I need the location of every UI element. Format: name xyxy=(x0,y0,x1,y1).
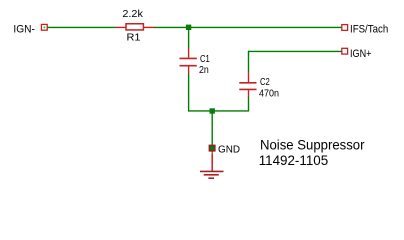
svg-text:470n: 470n xyxy=(259,88,279,100)
wire junction A down to C1 xyxy=(188,27,190,48)
wire bottom rail xyxy=(188,110,249,112)
GND attribute square xyxy=(209,145,216,152)
terminal IGN+ xyxy=(342,48,348,54)
wire C2 down to bottom rail xyxy=(248,97,250,112)
svg-text:C2: C2 xyxy=(260,76,270,88)
svg-text:11492-1105: 11492-1105 xyxy=(259,153,329,169)
ground symbol xyxy=(200,153,224,178)
capacitor C2 xyxy=(239,72,256,97)
wire IGN+ down to C2 xyxy=(248,51,250,72)
wire R1 to IFS/Tach xyxy=(154,26,342,28)
svg-text:Noise Suppressor: Noise Suppressor xyxy=(260,137,365,153)
svg-text:2n: 2n xyxy=(199,64,209,76)
svg-text:GND: GND xyxy=(218,143,240,155)
terminal IFS/Tach xyxy=(342,25,348,31)
svg-text:IFS/Tach: IFS/Tach xyxy=(350,24,388,36)
capacitor C1 xyxy=(180,48,197,73)
junction node B xyxy=(210,108,215,113)
svg-text:IGN-: IGN- xyxy=(13,24,35,36)
junction node A xyxy=(186,25,191,30)
wire IGN+ horizontal xyxy=(249,50,342,52)
terminal IGN- xyxy=(41,24,47,30)
svg-text:2.2k: 2.2k xyxy=(122,8,143,20)
svg-text:IGN+: IGN+ xyxy=(350,48,372,60)
svg-text:R1: R1 xyxy=(127,31,141,43)
wire IGN- to R1 xyxy=(48,26,117,28)
wire C1 down to bottom rail xyxy=(188,74,190,112)
resistor R1 xyxy=(116,24,155,30)
wire junction B down to ground xyxy=(211,111,213,153)
